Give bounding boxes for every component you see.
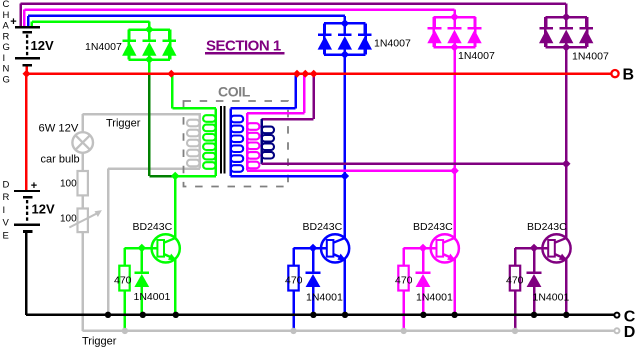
svg-text:car bulb: car bulb <box>41 154 80 166</box>
svg-text:E: E <box>3 230 9 241</box>
svg-text:1N4007: 1N4007 <box>85 41 122 53</box>
svg-text:G: G <box>3 74 10 85</box>
svg-text:Trigger: Trigger <box>82 336 117 347</box>
svg-text:12V: 12V <box>31 38 54 53</box>
svg-text:C: C <box>3 0 10 10</box>
svg-text:BD243C: BD243C <box>303 221 343 233</box>
svg-text:1N4001: 1N4001 <box>416 292 453 304</box>
svg-text:470: 470 <box>395 275 413 287</box>
svg-text:I: I <box>3 53 6 64</box>
svg-text:1N4001: 1N4001 <box>306 292 343 304</box>
svg-text:100: 100 <box>60 179 77 190</box>
svg-text:H: H <box>3 10 10 21</box>
svg-text:BD243C: BD243C <box>413 221 453 233</box>
svg-text:B: B <box>623 67 635 84</box>
svg-text:R: R <box>3 192 10 203</box>
svg-text:BD243C: BD243C <box>527 221 567 233</box>
svg-text:6W 12V: 6W 12V <box>39 123 79 135</box>
svg-text:A: A <box>3 21 10 32</box>
svg-text:Trigger: Trigger <box>106 118 141 130</box>
svg-text:R: R <box>3 31 10 42</box>
svg-text:COIL: COIL <box>218 84 251 100</box>
svg-text:+: + <box>10 16 16 28</box>
svg-text:G: G <box>3 42 10 53</box>
svg-text:+: + <box>31 180 37 192</box>
svg-text:I: I <box>3 205 6 216</box>
svg-text:470: 470 <box>506 275 524 287</box>
svg-text:1N4001: 1N4001 <box>533 292 570 304</box>
svg-text:12V: 12V <box>32 202 55 217</box>
svg-text:BD243C: BD243C <box>133 221 173 233</box>
svg-text:N: N <box>3 64 10 75</box>
svg-text:1N4001: 1N4001 <box>134 291 171 303</box>
svg-text:470: 470 <box>114 275 132 287</box>
svg-text:V: V <box>3 218 10 229</box>
svg-text:D: D <box>624 324 636 341</box>
svg-text:1N4007: 1N4007 <box>572 51 609 63</box>
svg-text:100: 100 <box>60 214 77 225</box>
svg-text:1N4007: 1N4007 <box>374 38 411 50</box>
svg-text:470: 470 <box>285 275 303 287</box>
svg-text:SECTION 1: SECTION 1 <box>206 38 281 55</box>
svg-text:C: C <box>624 308 636 325</box>
svg-text:D: D <box>3 179 10 190</box>
svg-text:1N4007: 1N4007 <box>458 50 495 62</box>
